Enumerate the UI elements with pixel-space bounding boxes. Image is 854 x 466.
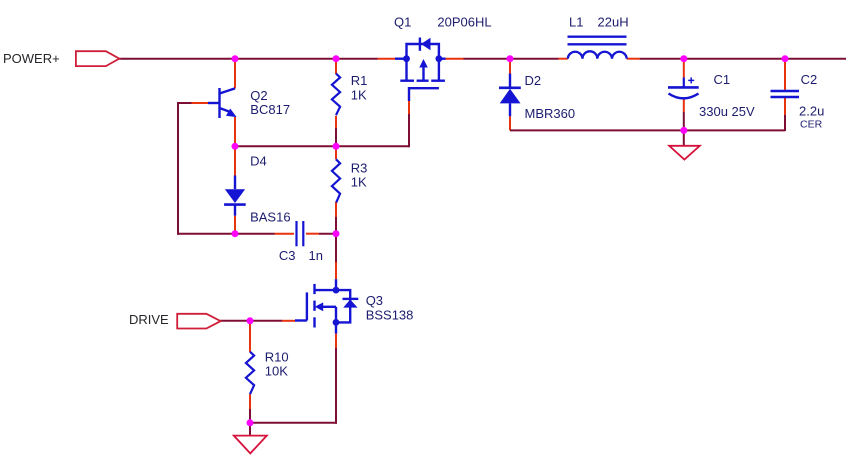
label R1 bbox=[351, 73, 368, 88]
svg-text:10K: 10K bbox=[265, 363, 288, 378]
junction Q1 source dot bbox=[403, 55, 410, 62]
svg-text:BC817: BC817 bbox=[250, 102, 290, 117]
svg-text:Q1: Q1 bbox=[394, 14, 411, 29]
wire feedback loop bottom bbox=[177, 233, 235, 235]
junction Q3 drain dot bbox=[333, 287, 340, 294]
wire C3 right pin to node I bbox=[306, 233, 336, 235]
wire node F to right end bbox=[785, 58, 846, 60]
wire C1 bottom pin bbox=[683, 98, 685, 130]
ground below C1 bbox=[669, 130, 700, 159]
capacitor C1 bbox=[668, 77, 699, 98]
junction Q3 source dot bbox=[333, 319, 340, 326]
wire node J to Q3 gate pin bbox=[250, 320, 295, 322]
wire bottom right horizontal to R10 bottom bbox=[250, 422, 337, 424]
resistor R10 bbox=[246, 352, 254, 395]
node D junction dot bbox=[507, 55, 514, 62]
wire node B to Q1 source pin bbox=[336, 58, 395, 60]
svg-text:330u 25V: 330u 25V bbox=[699, 104, 755, 119]
label R10 value 10K bbox=[265, 363, 288, 378]
wire R10 top pin bbox=[249, 321, 251, 352]
svg-text:D4: D4 bbox=[250, 154, 267, 169]
label C3 value 1n bbox=[309, 248, 323, 263]
wire Q2 base net bbox=[178, 102, 208, 104]
label D4 value BAS16 bbox=[250, 210, 290, 225]
svg-text:BSS138: BSS138 bbox=[366, 308, 414, 323]
wire bottom rail D2 to C1 bbox=[510, 129, 684, 131]
label R3 value 1K bbox=[351, 175, 367, 190]
diode D2 bbox=[499, 74, 521, 117]
label L1 value 22uH bbox=[598, 15, 629, 30]
svg-text:R1: R1 bbox=[351, 73, 368, 88]
mosfet Q3 bbox=[295, 279, 358, 333]
capacitor C3 bbox=[297, 221, 304, 246]
wire D2 cathode pin top bbox=[509, 59, 511, 74]
svg-text:BAS16: BAS16 bbox=[250, 210, 290, 225]
svg-text:DRIVE: DRIVE bbox=[129, 312, 169, 327]
label Q1 bbox=[394, 14, 411, 29]
capacitor C2 bbox=[771, 91, 800, 97]
svg-text:C2: C2 bbox=[801, 72, 818, 87]
junction Q1 drain dot bbox=[436, 55, 443, 62]
node H junction dot bbox=[232, 230, 239, 237]
label D2 bbox=[525, 73, 542, 88]
label C2 value 2.2u bbox=[799, 104, 824, 119]
wire Q2 collector pin bbox=[234, 59, 236, 89]
wire D2 anode pin bottom bbox=[509, 116, 511, 130]
svg-text:CER: CER bbox=[800, 119, 823, 131]
svg-text:L1: L1 bbox=[569, 15, 583, 30]
wire node A to node B bbox=[235, 58, 336, 60]
wire C2 top pin bbox=[784, 59, 786, 91]
wire Q2 emitter pin to node C bbox=[234, 117, 236, 146]
label D4 bbox=[250, 154, 267, 169]
svg-text:Q3: Q3 bbox=[366, 293, 383, 308]
svg-text:1K: 1K bbox=[351, 88, 367, 103]
node J junction dot bbox=[247, 317, 254, 324]
label DRIVE bbox=[129, 312, 169, 327]
wire node I down to Q3 drain pin bbox=[335, 234, 337, 280]
label C1 bbox=[714, 72, 731, 87]
svg-text:C3: C3 bbox=[279, 248, 296, 263]
label Q2 value BC817 bbox=[250, 102, 290, 117]
wire node G to Q1 gate bbox=[336, 101, 409, 147]
label D2 value MBR360 bbox=[525, 106, 576, 121]
mosfet Q1 bbox=[395, 38, 446, 102]
wire R10 bottom pin to node K bbox=[249, 394, 251, 423]
svg-text:20P06HL: 20P06HL bbox=[437, 14, 491, 29]
svg-text:POWER+: POWER+ bbox=[3, 51, 60, 66]
label R1 value 1K bbox=[351, 88, 367, 103]
svg-text:Q2: Q2 bbox=[250, 88, 267, 103]
wire L1 to node E bbox=[627, 58, 684, 60]
label C1 value 330u 25V bbox=[699, 104, 755, 119]
svg-text:D2: D2 bbox=[525, 73, 542, 88]
svg-text:1n: 1n bbox=[309, 248, 323, 263]
node C1 bottom junction dot bbox=[680, 127, 687, 134]
label Q1 value 20P06HL bbox=[437, 14, 491, 29]
wire Q3 source pin down bbox=[335, 334, 337, 424]
node G junction dot bbox=[333, 143, 340, 150]
node I junction dot bbox=[333, 230, 340, 237]
wire node C to node G (R3 top) bbox=[235, 145, 336, 147]
svg-text:C1: C1 bbox=[714, 72, 731, 87]
label C2 value CER bbox=[800, 119, 823, 131]
node E junction dot bbox=[680, 55, 687, 62]
label C3 bbox=[279, 248, 296, 263]
label Q3 value BSS138 bbox=[366, 308, 414, 323]
label POWER+ bbox=[3, 51, 60, 66]
wire node H to C3 left pin bbox=[235, 233, 294, 235]
node A junction dot bbox=[232, 55, 239, 62]
label R10 bbox=[265, 349, 289, 364]
connector DRIVE bbox=[177, 314, 220, 329]
node F junction dot bbox=[782, 55, 789, 62]
inductor L1 bbox=[568, 37, 627, 59]
wire POWER+ rail tip to node A bbox=[119, 58, 235, 60]
wire Q1 drain pin to node D bbox=[445, 58, 510, 60]
svg-text:2.2u: 2.2u bbox=[799, 104, 824, 119]
wire D4 cathode pin bbox=[234, 216, 236, 234]
svg-text:R10: R10 bbox=[265, 349, 289, 364]
wire node D to L1 bbox=[510, 58, 568, 60]
connector POWER+ bbox=[76, 51, 119, 66]
wire C1 top pin bbox=[683, 59, 685, 78]
diode D4 bbox=[224, 176, 246, 216]
resistor R1 bbox=[332, 59, 340, 147]
label L1 bbox=[569, 15, 583, 30]
label Q2 bbox=[250, 88, 267, 103]
svg-text:MBR360: MBR360 bbox=[525, 106, 576, 121]
wire feedback loop left vertical bbox=[177, 102, 179, 235]
wire DRIVE tip to node J bbox=[220, 320, 250, 322]
svg-text:R3: R3 bbox=[351, 161, 368, 176]
wire bottom rail C1 to C2 bbox=[684, 97, 785, 131]
node B junction dot bbox=[333, 55, 340, 62]
transistor Q2 bbox=[208, 88, 236, 118]
ground below R10 bbox=[234, 423, 267, 454]
label R3 bbox=[351, 161, 368, 176]
resistor R3 bbox=[332, 146, 340, 233]
wire node E to node F bbox=[684, 58, 785, 60]
label Q3 bbox=[366, 293, 383, 308]
svg-text:22uH: 22uH bbox=[598, 15, 629, 30]
wire D4 anode pin bbox=[234, 146, 236, 175]
label C2 bbox=[801, 72, 818, 87]
svg-text:1K: 1K bbox=[351, 175, 367, 190]
node K junction dot bbox=[247, 419, 254, 426]
node C junction dot bbox=[232, 143, 239, 150]
